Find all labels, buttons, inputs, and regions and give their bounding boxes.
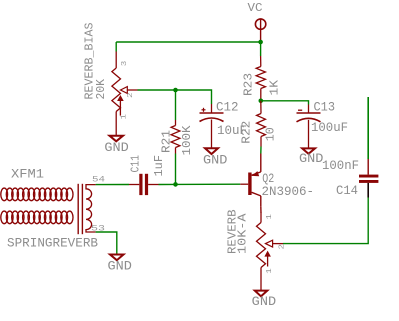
wire C11 to junction3 — [159, 183, 176, 185]
ground under REVERB pot — [252, 291, 276, 309]
wire VC rail down to REVERB_BIAS pin 3 — [115, 42, 117, 52]
junction node C11/R21/base — [173, 182, 178, 187]
wire junction1 down to R23 — [260, 42, 262, 56]
svg-text:20K: 20K — [95, 79, 108, 100]
potentiometer REVERB 10K-A — [227, 209, 287, 290]
svg-text:1: 1 — [120, 114, 128, 120]
svg-text:1: 1 — [266, 268, 274, 274]
wire XFM1 pin 54 to C11 — [96, 184, 129, 186]
resistor R23 1K — [243, 56, 282, 99]
svg-text:C11: C11 — [130, 155, 143, 173]
capacitor C12 10uF polarized — [200, 101, 248, 149]
transformer XFM1 secondary winding pins 54 53 — [86, 175, 105, 234]
wire REVERB wiper to C14 — [283, 198, 368, 244]
supply symbol VC — [248, 2, 266, 42]
svg-text:GND: GND — [203, 154, 227, 168]
transformer XFM1 SPRINGREVERB primary coils — [1, 168, 73, 224]
wire VC supply to junction1 horizontal — [116, 41, 260, 43]
ground under pin 53 — [108, 255, 132, 274]
transistor Q2 2N3906 PNP — [240, 154, 314, 207]
svg-text:GND: GND — [299, 152, 323, 166]
svg-text:1K: 1K — [269, 80, 282, 96]
wire junction4 to C13 — [261, 101, 309, 105]
capacitor C14 100nF — [322, 159, 378, 198]
capacitor C13 100uF polarized — [297, 101, 349, 149]
svg-text:VC: VC — [248, 2, 263, 15]
wire junction3 to Q2 base — [176, 183, 241, 185]
junction node at VC column — [258, 40, 263, 45]
wire junction2 to C12 — [176, 90, 212, 104]
capacitor C11 1uF — [129, 155, 166, 195]
wire wiper of REVERB_BIAS to junction2 — [138, 89, 176, 91]
svg-text:C12: C12 — [216, 101, 239, 115]
wire junction2 down to R21 — [175, 90, 177, 120]
svg-text:1: 1 — [266, 214, 274, 220]
svg-text:R21: R21 — [161, 130, 174, 153]
wire R23 to junction4 — [260, 99, 262, 101]
svg-text:3: 3 — [121, 61, 129, 67]
resistor R21 100K — [161, 120, 195, 156]
svg-text:100nF: 100nF — [322, 159, 359, 173]
svg-text:2: 2 — [127, 93, 135, 99]
svg-text:C14: C14 — [336, 184, 358, 198]
resistor R22 10 — [241, 101, 278, 147]
junction node wiper/R21/C12 — [173, 88, 178, 93]
wire R21 to junction3 — [175, 154, 177, 185]
wire Q2 collector to REVERB pot — [260, 206, 262, 213]
svg-text:10K-A: 10K-A — [237, 213, 250, 254]
ground under REVERB_BIAS — [104, 136, 128, 155]
svg-text:R22: R22 — [241, 121, 254, 144]
ground under C12 — [203, 148, 227, 167]
svg-text:C13: C13 — [314, 101, 336, 115]
svg-text:2N3906-: 2N3906- — [262, 185, 315, 199]
svg-text:2: 2 — [279, 244, 287, 250]
svg-text:SPRINGREVERB: SPRINGREVERB — [7, 237, 99, 251]
transformer XFM1 core — [78, 184, 82, 234]
svg-text:GND: GND — [104, 141, 128, 155]
junction node R23/R22/C13 — [259, 99, 264, 104]
svg-text:Q2: Q2 — [262, 172, 274, 186]
svg-text:XFM1: XFM1 — [11, 168, 44, 182]
wire pin 53 to ground — [96, 232, 117, 255]
svg-text:100uF: 100uF — [311, 121, 348, 135]
svg-text:10: 10 — [265, 127, 278, 141]
svg-text:GND: GND — [252, 295, 276, 309]
svg-text:100K: 100K — [181, 125, 194, 155]
potentiometer REVERB_BIAS 20K — [84, 22, 138, 135]
wire R22 to Q2 emitter — [260, 147, 262, 154]
svg-text:54: 54 — [92, 175, 105, 185]
svg-text:R23: R23 — [243, 73, 256, 96]
ground under C13 — [299, 148, 323, 166]
svg-text:1uF: 1uF — [153, 155, 166, 177]
wire right net down to C14 — [367, 97, 369, 159]
svg-text:GND: GND — [108, 259, 132, 273]
